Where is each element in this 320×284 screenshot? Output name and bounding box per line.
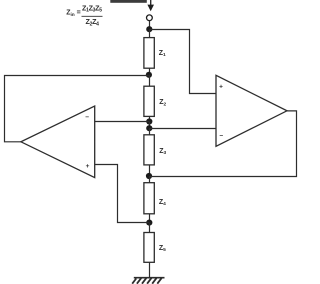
svg-text:−: − [219, 132, 223, 139]
wire: node E to right op-amp output [149, 111, 297, 177]
node D (junction dot) [146, 125, 152, 131]
wire: node F to Z5 [149, 223, 151, 233]
resistor Z1 [144, 38, 154, 69]
cropped header bar [110, 0, 147, 3]
wire: node B to left op-amp output (feedback loop) [5, 76, 149, 142]
input terminal (open circle) [147, 15, 153, 21]
node C (junction dot) [146, 118, 152, 124]
svg-text:+: + [219, 84, 223, 91]
wire: node D to right op-amp inverting input [149, 128, 216, 130]
node F (junction dot) [146, 220, 152, 226]
resistor Z3 [144, 135, 154, 165]
node A (junction dot) [146, 26, 152, 32]
input arrow [147, 0, 154, 11]
wire: node B to Z2 [149, 75, 151, 86]
ground [132, 278, 164, 284]
resistor Z4 [144, 183, 154, 214]
wire: node E to Z4 [149, 176, 151, 183]
wire: node A down to Z1 [149, 29, 151, 38]
svg-text:−: − [85, 114, 89, 121]
wire: Z2 bottom to node C [149, 116, 151, 121]
svg-text:+: + [86, 163, 90, 170]
svg-text:Z1Z3Z5: Z1Z3Z5 [82, 3, 102, 13]
wire: node C to left op-amp inverting input [95, 121, 150, 123]
resistor Z2 [144, 86, 154, 116]
wire: node D to Z3 [149, 128, 151, 135]
wire: node F to left op-amp non-inverting input [95, 165, 150, 223]
wire: Z4 bottom to node F [149, 214, 151, 223]
wire: node A to right op-amp non-inverting input [149, 30, 216, 94]
node B (junction dot) [146, 72, 152, 78]
formula Zin = Z1Z3Z5 / Z2Z4 [66, 3, 102, 27]
wire: Z5 bottom to ground [149, 262, 151, 278]
wire: terminal to node A [149, 21, 151, 29]
wire: Z3 bottom to node E [149, 165, 151, 176]
resistor Z5 [144, 233, 154, 263]
op-amp U2 (right, output at right apex) [216, 75, 287, 146]
op-amp U1 (left, output at left apex) [21, 106, 95, 178]
wire: node C to node D [149, 122, 151, 129]
node E (junction dot) [146, 173, 152, 179]
wire: Z1 bottom to node B [149, 68, 151, 75]
